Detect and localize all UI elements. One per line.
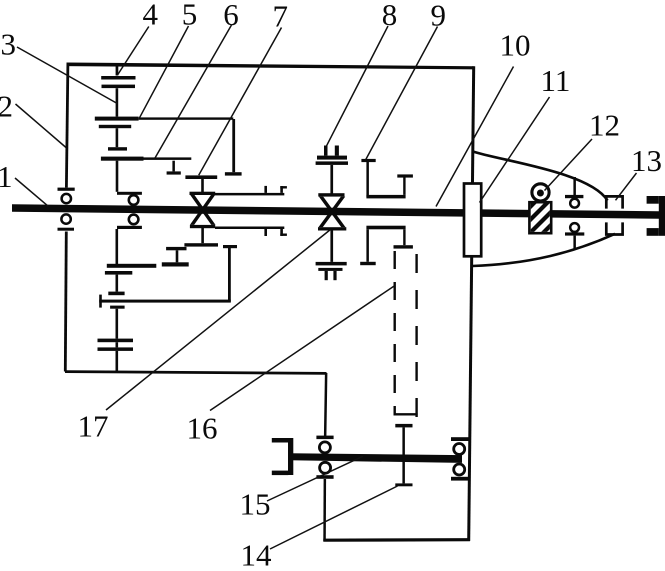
sliding clutch X1: diagonal 1 (190, 195, 216, 225)
tensioner bearing: upper stem (573, 177, 576, 195)
mesh line Q riser top bar (223, 245, 237, 248)
gear stem from top wall (116, 65, 119, 76)
svg-text:7: 7 (273, 0, 289, 34)
leader line 8 (326, 26, 388, 146)
shift fork 9: upper left T bar (361, 159, 375, 162)
gear 5: upper rim (108, 147, 127, 150)
lower shaft right bearing: top circle (454, 444, 465, 455)
gear 4: upper rim (101, 76, 135, 80)
tensioner bearing: lower stem (573, 236, 576, 249)
lower shaft right bearing: bottom cap (451, 477, 470, 481)
lower shaft wall bearing: top cap (316, 436, 333, 440)
leader line 11 (480, 97, 550, 203)
small gear tooth under 6: stem (172, 161, 175, 172)
lower shaft wall bearing: bottom cap (316, 475, 333, 479)
gear R1: rim (110, 306, 125, 309)
sliding clutch X1: diagonal 2 (190, 195, 216, 225)
tensioner bearing: upper circle (570, 199, 579, 208)
lower shaft wall bearing: bottom circle (320, 462, 331, 473)
leader line 2 (16, 104, 67, 148)
dashed gear 16: bottom dashed bar (394, 413, 418, 415)
idler tooth above P1: stem (176, 250, 179, 262)
clutch X1: lower bar (184, 243, 218, 246)
sleeve upper tick 1 (264, 186, 267, 193)
right coupling bracket: bottom arm (647, 228, 659, 236)
svg-text:4: 4 (143, 0, 159, 32)
pulley 12: hatched block (502, 201, 575, 235)
stem R1-R2 (116, 309, 119, 339)
clutch 8: lower teeth left (325, 271, 328, 280)
shift fork 9: lower right vertical (403, 229, 405, 245)
mesh line Q (99, 300, 231, 303)
bearing 2: top cap (117, 192, 142, 195)
sliding clutch X1: bottom bar (190, 225, 215, 228)
pulley 12: outer circle (532, 184, 549, 201)
clutch X1: lower stem (201, 228, 204, 243)
lower shaft left coupling: top arm (272, 438, 289, 443)
sleeve lower tick 2 hook (280, 234, 287, 236)
right coupling bracket: vertical bar (659, 196, 665, 236)
svg-text:8: 8 (382, 0, 398, 32)
elastic coupling 11 (white rect on shaft) (464, 184, 481, 257)
belt curve upper (473, 152, 608, 201)
clutch 8: lower bar 1 (316, 262, 347, 266)
leader line 14 (270, 486, 398, 549)
svg-text:12: 12 (589, 108, 620, 143)
gear stem between 4 and 3 (116, 88, 119, 116)
shift fork 9: upper right T bar (397, 174, 413, 177)
leader line 12 (545, 139, 593, 191)
lower shaft wall bearing: top circle (319, 442, 330, 453)
sleeve lower tick 1 (264, 229, 267, 236)
leader line 15 (267, 456, 363, 501)
gear 7: stem to clutch (201, 179, 204, 194)
spline sleeve lower line (215, 227, 284, 230)
sleeve upper tick 2 hook (280, 186, 287, 188)
gear 4: lower rim (102, 85, 136, 89)
gear 3: upper rim (thick) (95, 117, 139, 121)
svg-text:10: 10 (500, 28, 531, 63)
svg-text:14: 14 (241, 538, 273, 567)
housing left wall lower (64, 232, 68, 372)
gear 7: rim bar (185, 175, 217, 179)
leader line 13 (616, 173, 637, 200)
leader line 1 (15, 178, 48, 206)
tensioner bearing: lower circle (570, 223, 579, 232)
clutch 8: upper teeth right (335, 146, 339, 156)
gear R3: rim (98, 347, 134, 351)
shift fork 9: upper left vertical (366, 161, 369, 197)
shift fork 9: upper right vertical (403, 176, 405, 195)
clutch 8: upper bar 1 (317, 156, 347, 160)
gear P2: rim (105, 271, 132, 275)
leader line 5 (140, 26, 189, 118)
clutch 8: lower teeth right (333, 271, 336, 280)
leader line 3 (17, 47, 117, 104)
gear P1: long rim (107, 264, 157, 268)
belt curve lower (473, 234, 615, 266)
mesh line Q left tick (99, 295, 102, 308)
lower shaft II (290, 453, 462, 463)
right coupling bracket: top arm (647, 196, 659, 204)
gear R2: rim (98, 339, 134, 343)
gear 6: rim extension line (144, 157, 192, 160)
bearing 2: bottom circle (129, 215, 139, 225)
lower shaft right bearing: bottom circle (454, 464, 465, 475)
gear 6: rim (thick) (101, 157, 144, 161)
housing bottom wall left section (65, 370, 327, 375)
clutch 8: upper bar 2 (316, 161, 348, 165)
spline sleeve upper line (215, 193, 284, 196)
gear 14: top bar (395, 424, 412, 428)
sliding clutch X2: diagonal 2 (318, 197, 345, 228)
clutch 8: lower stem (330, 230, 333, 262)
housing bottom wall right section (323, 538, 470, 542)
leader line 9 (366, 27, 438, 160)
stem R3 to bottom wall (116, 351, 119, 372)
shift fork 9: lower left T bar (360, 262, 376, 265)
end support 13: lower block (606, 222, 622, 234)
housing mid wall lower (step) (323, 479, 326, 541)
idler tooth above P1: top bar (166, 247, 186, 250)
dashed gear 16: right dashed line (415, 254, 417, 417)
housing right wall (467, 66, 475, 541)
svg-text:15: 15 (240, 487, 271, 522)
gear 3: rim extension line (139, 117, 234, 119)
shift fork 9: lower right T bar (394, 245, 413, 248)
bearing 1 left wall: bottom circle (61, 214, 70, 223)
svg-text:13: 13 (631, 143, 662, 178)
bracket from gear 3 down: vertical (232, 119, 235, 172)
sleeve lower tick 2 (280, 229, 283, 236)
svg-text:5: 5 (182, 0, 198, 32)
pulley 12: center dot (537, 190, 544, 197)
sliding clutch X1: top bar (190, 192, 216, 195)
sliding clutch X2: diagonal 1 (319, 197, 346, 228)
bearing on left wall: top cap (58, 188, 75, 191)
gear stem below 6 (116, 161, 119, 192)
lower shaft left coupling: vertical bar (288, 438, 293, 475)
lower shaft right bearing: top cap (451, 437, 470, 441)
shift fork 9: lower left vertical (366, 229, 369, 261)
clutch 8: upper stem (330, 165, 333, 194)
dashed gear 16: left dashed line (394, 251, 396, 415)
tensioner bearing: upper cap (565, 195, 583, 198)
idler tooth above P1: bottom bar (162, 262, 189, 266)
mesh line Q right riser (228, 248, 231, 302)
stem P2-P3 (116, 275, 119, 292)
svg-text:16: 16 (187, 411, 218, 446)
gear 14: stem (402, 427, 405, 483)
lower shaft left coupling: bottom arm (272, 471, 289, 476)
tensioner bearing: lower cap (565, 232, 584, 235)
leader line 7 (199, 28, 282, 176)
leader line 17 (106, 230, 331, 411)
small gear tooth under 6: bar (167, 171, 181, 174)
stem bearing2 to lower gears (116, 229, 119, 265)
gear 14: bottom bar (395, 483, 412, 486)
main shaft I (spindle) (12, 204, 659, 218)
stem R2-R3 (116, 342, 119, 347)
leader line 10 (436, 67, 514, 207)
svg-text:9: 9 (431, 0, 447, 33)
gear 3: lower rim (99, 125, 131, 128)
leader line 16 (210, 286, 394, 410)
leader line 4 (118, 27, 149, 76)
bearing on left wall: bottom cap (58, 228, 75, 231)
housing top wall (67, 63, 474, 70)
bearing 2: bottom cap (117, 226, 142, 229)
svg-text:1: 1 (0, 159, 13, 194)
shift fork 9: upper bottom bar (366, 195, 405, 199)
end support 13: upper block (606, 196, 622, 208)
bracket from gear 3 down: tooth bar (225, 172, 242, 175)
gear P3: rim (108, 292, 124, 296)
bearing 2: top circle (129, 195, 139, 205)
clutch 8: upper teeth left (324, 146, 328, 156)
svg-text:2: 2 (0, 89, 13, 124)
svg-text:11: 11 (541, 63, 571, 98)
housing left wall upper (65, 63, 69, 188)
clutch 8: lower bar 2 (318, 268, 342, 271)
svg-text:17: 17 (78, 409, 109, 444)
leader line 6 (155, 25, 232, 158)
shift fork 9: lower top bar (366, 226, 405, 230)
sleeve upper tick 2 (280, 186, 283, 193)
svg-text:6: 6 (223, 0, 239, 32)
sliding clutch X2: top bar (318, 193, 344, 196)
gear stem between 3 and 5 (116, 128, 119, 147)
housing mid wall upper (step) (324, 373, 328, 437)
svg-text:3: 3 (1, 27, 17, 62)
sliding clutch X2: bottom bar (318, 227, 346, 230)
